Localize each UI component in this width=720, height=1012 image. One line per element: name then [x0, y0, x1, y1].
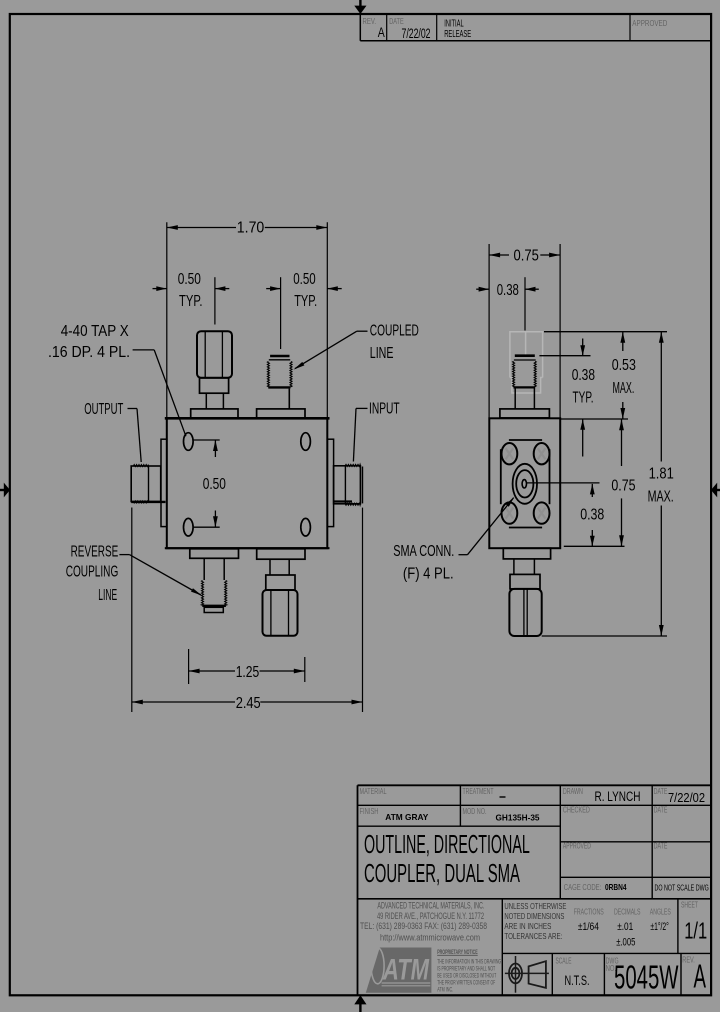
svg-text:1/1: 1/1 — [684, 918, 707, 944]
svg-text:OUTLINE, DIRECTIONAL: OUTLINE, DIRECTIONAL — [364, 829, 530, 859]
svg-text:ARE IN INCHES: ARE IN INCHES — [504, 921, 551, 931]
title block outline — [358, 785, 712, 995]
svg-text:LINE: LINE — [98, 587, 117, 604]
side view: bottom connector — [509, 559, 541, 636]
svg-text:APPROVED: APPROVED — [632, 18, 667, 28]
dimension 0.50 (hole spacing vertical) — [193, 440, 226, 527]
side view: body (end face) — [489, 418, 560, 548]
dimension 2.45 (overall width) — [132, 508, 363, 713]
svg-text:FINISH: FINISH — [360, 806, 379, 816]
leader for COUPLED LINE with arrowhead — [294, 331, 368, 369]
dimension 0.50 TYP. (left connector offset) — [153, 271, 230, 325]
svg-text:0.38: 0.38 — [580, 507, 604, 524]
extension line ghost top — [544, 331, 667, 333]
extension line connector top — [539, 355, 590, 357]
front view: top-left hex connector — [191, 331, 238, 418]
svg-text:OUTPUT: OUTPUT — [84, 401, 123, 418]
proprietary notice — [437, 949, 501, 993]
side view: screw bottom-left — [502, 502, 518, 523]
side view: screw top-left — [502, 443, 518, 464]
side view: ghost connector envelope (max outline) — [510, 332, 543, 393]
svg-text:APPROVED: APPROVED — [563, 840, 591, 850]
svg-text:THE INFORMATION IN THIS DRAWIN: THE INFORMATION IN THIS DRAWING — [437, 958, 501, 965]
svg-text:RELEASE: RELEASE — [444, 28, 471, 40]
third angle projection symbol — [505, 956, 549, 993]
svg-text:BE USED OR DISCLOSED WITHOUT: BE USED OR DISCLOSED WITHOUT — [437, 972, 496, 979]
svg-text:DATE: DATE — [654, 786, 668, 796]
svg-text:REVERSE: REVERSE — [71, 543, 119, 560]
svg-text:COUPLED: COUPLED — [370, 322, 419, 339]
dimension 0.38 TYP. (connector height) — [572, 339, 595, 457]
centering arrow left — [0, 483, 10, 498]
svg-text:0.50: 0.50 — [203, 476, 226, 493]
svg-text:0.38: 0.38 — [497, 282, 519, 299]
svg-text:±.01: ±.01 — [617, 921, 633, 933]
label 4-40 TAP X .16 DP. 4 PL. — [48, 323, 130, 361]
side view: top SMA connector — [500, 356, 550, 418]
svg-text:DATE: DATE — [654, 840, 668, 850]
ANGLES column — [650, 907, 671, 934]
front view: coupler body — [165, 418, 330, 548]
extension line center line right — [527, 482, 600, 484]
front view: left side tab — [161, 439, 167, 526]
leader for SMA CONN with arrowhead — [459, 497, 515, 555]
dimension 0.75 (body width, top) — [489, 244, 560, 418]
leader for INPUT — [353, 408, 367, 461]
svg-text:.16 DP. 4 PL.: .16 DP. 4 PL. — [48, 344, 130, 361]
svg-text:REV.: REV. — [363, 16, 377, 26]
svg-text:A: A — [694, 958, 707, 995]
svg-text:NOTED DIMENSIONS: NOTED DIMENSIONS — [504, 911, 564, 921]
svg-text:COUPLER, DUAL SMA: COUPLER, DUAL SMA — [364, 858, 520, 888]
svg-text:0.50: 0.50 — [178, 271, 201, 288]
svg-text:1.70: 1.70 — [237, 220, 265, 237]
svg-text:ATM INC.: ATM INC. — [437, 986, 453, 993]
svg-text:DATE: DATE — [654, 805, 668, 815]
company address block — [360, 901, 487, 943]
svg-text:DECIMALS: DECIMALS — [614, 907, 641, 917]
dimension 1.25 (hole spacing horizontal) — [189, 649, 305, 684]
svg-text:1.25: 1.25 — [236, 664, 260, 681]
svg-text:ATM GRAY: ATM GRAY — [385, 812, 428, 822]
svg-text:49 RIDER AVE., PATCHOGUE N.Y.: 49 RIDER AVE., PATCHOGUE N.Y. 11772 — [377, 911, 484, 921]
leader for OUTPUT — [128, 409, 142, 463]
svg-text:MAX.: MAX. — [613, 380, 635, 397]
svg-text:TYP.: TYP. — [179, 293, 203, 310]
svg-text:THE PRIOR WRITTEN CONSENT OF: THE PRIOR WRITTEN CONSENT OF — [437, 979, 495, 986]
svg-text:DATE: DATE — [389, 16, 404, 26]
svg-text:ADVANCED TECHNICAL MATERIALS,: ADVANCED TECHNICAL MATERIALS, INC. — [377, 901, 484, 911]
label REVERSE COUPLING LINE — [66, 543, 119, 603]
svg-text:N.T.S.: N.T.S. — [565, 972, 590, 988]
svg-text:GH135H-35: GH135H-35 — [496, 812, 540, 822]
treatment value dash — [500, 796, 506, 798]
centering arrow right — [711, 483, 720, 498]
svg-text:TYP.: TYP. — [573, 389, 594, 406]
label COUPLED LINE — [370, 322, 419, 361]
dimension 0.38 (connector centre, top) — [476, 277, 539, 330]
front view: mounting hole top-left — [184, 433, 194, 451]
svg-text:LINE: LINE — [370, 345, 394, 362]
svg-text:0.38: 0.38 — [572, 367, 595, 384]
tolerance block text — [504, 901, 566, 941]
svg-text:MATERIAL: MATERIAL — [360, 786, 387, 796]
centering arrow bottom — [354, 995, 366, 1012]
svg-text:TREATMENT: TREATMENT — [463, 786, 494, 796]
ATM logo — [366, 948, 432, 993]
svg-text:UNLESS OTHERWISE: UNLESS OTHERWISE — [504, 901, 566, 911]
svg-text:SCALE: SCALE — [556, 956, 572, 966]
extension line body bottom right — [564, 545, 625, 547]
front view: reverse coupling SMA connector (bottom-left) — [190, 549, 239, 613]
dimension 0.75 (body height, right) — [611, 419, 635, 546]
svg-text:±1/64: ±1/64 — [578, 921, 599, 933]
front view: output connector (left side) — [131, 465, 165, 503]
svg-text:2.45: 2.45 — [236, 695, 261, 712]
svg-text:1.81: 1.81 — [649, 466, 674, 483]
svg-text:0.75: 0.75 — [611, 478, 635, 495]
label SMA CONN. (F) 4 PL. — [393, 543, 454, 582]
svg-text:0RBN4: 0RBN4 — [605, 882, 627, 892]
front view: coupled line SMA connector — [257, 356, 305, 418]
front view: right side tab — [327, 439, 333, 526]
svg-text:R. LYNCH: R. LYNCH — [595, 789, 641, 804]
svg-text:ANGLES: ANGLES — [650, 907, 671, 917]
extension line body top right — [561, 418, 629, 420]
front view: input connector (right side) — [334, 464, 363, 505]
svg-text:±.005: ±.005 — [616, 937, 635, 949]
svg-text:7/22/02: 7/22/02 — [402, 26, 431, 41]
svg-text:COUPLING: COUPLING — [66, 563, 119, 580]
svg-text:DO NOT SCALE DWG: DO NOT SCALE DWG — [655, 882, 709, 892]
svg-text:5045W: 5045W — [614, 958, 679, 995]
drawing title OUTLINE, DIRECTIONAL COUPLER, DUAL SMA — [364, 829, 530, 888]
svg-text:SMA CONN.: SMA CONN. — [393, 543, 454, 560]
svg-text:0.53: 0.53 — [612, 357, 636, 374]
svg-text:MAX.: MAX. — [648, 489, 674, 506]
dimension 0.38 (centre to bottom, right) — [580, 484, 604, 546]
svg-text:CAGE CODE:: CAGE CODE: — [564, 883, 602, 892]
dimension 0.53 MAX. — [612, 332, 636, 419]
FRACTIONS column — [574, 907, 604, 933]
dimension 1.81 MAX. (overall height) — [648, 332, 674, 636]
front view: bottom-right hex connector — [257, 549, 305, 636]
side view: bottom flange — [503, 548, 550, 559]
svg-text:0.75: 0.75 — [514, 248, 539, 265]
svg-text:TOLERANCES ARE:: TOLERANCES ARE: — [504, 931, 562, 941]
side view: screw bottom-right — [534, 502, 550, 523]
dimension 1.70 (body width) — [167, 220, 327, 419]
svg-text:FRACTIONS: FRACTIONS — [574, 907, 604, 917]
side view: face plate rounded square — [509, 439, 542, 441]
dimension 0.50 TYP. (right connector offset) — [266, 271, 342, 349]
svg-text:4-40 TAP X: 4-40 TAP X — [61, 323, 130, 340]
svg-text:DRAWN: DRAWN — [563, 786, 583, 796]
svg-text:IS PROPRIETARY AND SHALL NOT: IS PROPRIETARY AND SHALL NOT — [437, 965, 495, 972]
svg-text:INPUT: INPUT — [369, 400, 400, 417]
front view: mounting hole bottom-left — [184, 518, 194, 536]
revision table — [360, 14, 711, 41]
svg-text:CHECKED: CHECKED — [563, 805, 590, 815]
side view: center SMA contact — [513, 464, 537, 504]
svg-text:A: A — [378, 24, 385, 40]
svg-text:TEL: (631) 289-0363 FAX: (63: TEL: (631) 289-0363 FAX: (631) 289-0358 — [360, 921, 487, 931]
svg-text:(F) 4 PL.: (F) 4 PL. — [403, 565, 454, 582]
svg-text:7/22/02: 7/22/02 — [668, 790, 705, 805]
svg-text:MOD NO.: MOD NO. — [463, 806, 487, 816]
svg-text:SHEET: SHEET — [681, 900, 698, 910]
svg-text:http://www.atmmicrowave.com: http://www.atmmicrowave.com — [380, 932, 480, 942]
svg-text:ATM: ATM — [382, 954, 429, 987]
svg-text:TYP.: TYP. — [294, 293, 317, 310]
front view: mounting hole bottom-right — [301, 518, 311, 536]
leader for 4-40 tap — [133, 350, 186, 436]
DWG NO. label — [606, 955, 619, 973]
svg-text:±1°/2°: ±1°/2° — [650, 921, 669, 933]
revision description INITIAL RELEASE — [444, 17, 471, 40]
svg-text:0.50: 0.50 — [293, 271, 316, 288]
front view: mounting hole top-right — [301, 433, 311, 451]
centering arrow top — [354, 0, 366, 14]
extension line hex bottom right — [542, 635, 667, 637]
side view: screw top-right — [534, 443, 550, 464]
leader for REVERSE COUPLING LINE with arrowhead — [119, 555, 202, 596]
DECIMALS column — [614, 907, 641, 949]
